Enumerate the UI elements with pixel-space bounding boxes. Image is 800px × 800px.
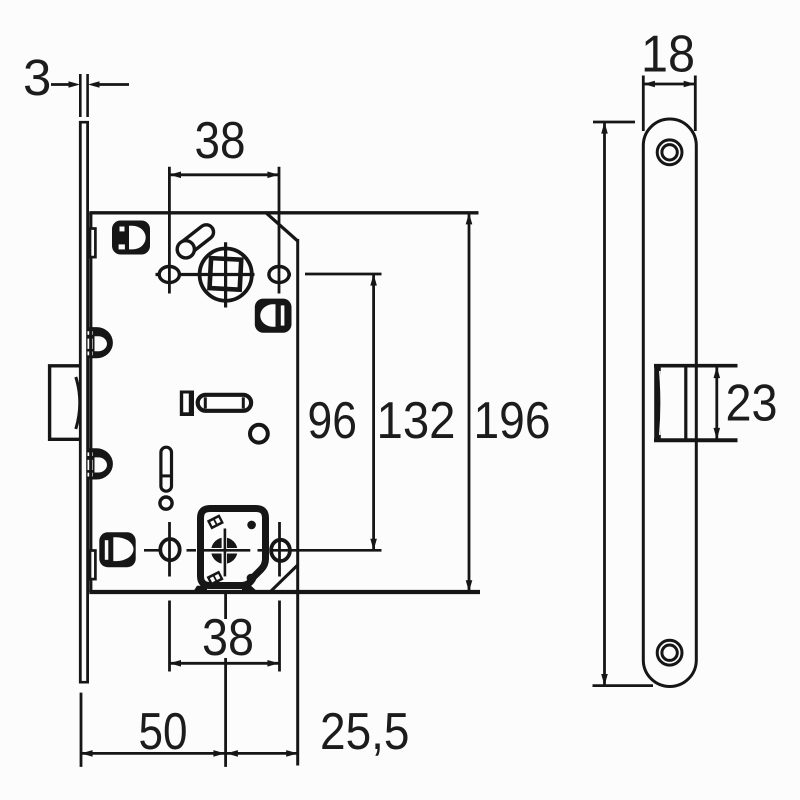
svg-text:50: 50 — [139, 703, 188, 761]
teardrop slot — [161, 447, 172, 491]
magnet case feet — [193, 586, 207, 592]
follower circle — [200, 249, 252, 301]
extension line 38 top left through hole — [168, 167, 171, 294]
upper mounting hook on faceplate — [88, 327, 113, 358]
svg-text:3: 3 — [23, 49, 51, 106]
svg-text:23: 23 — [726, 375, 778, 433]
top screw hole front — [657, 140, 682, 165]
small circle below slot — [250, 425, 268, 443]
extension line bottom-right hole — [278, 522, 281, 672]
hub screw — [211, 537, 238, 564]
lock case left edge — [89, 213, 92, 592]
faceplate extension line bottom — [80, 693, 83, 767]
lock case bottom-right chamfer — [271, 565, 299, 592]
svg-text:132: 132 — [377, 392, 456, 450]
upper-right screw hole — [269, 267, 289, 283]
dimension 25,5 — [226, 750, 299, 757]
extension line 38 top right through hole — [278, 167, 281, 294]
upper-left screw hole — [159, 267, 179, 283]
extension line bottom-left hole — [168, 522, 171, 672]
svg-text:38: 38 — [202, 609, 254, 667]
lock case top-right chamfer — [266, 213, 298, 241]
dimension 23 — [714, 366, 721, 441]
dimension 196 — [593, 122, 654, 686]
dimension 18 — [643, 76, 695, 132]
lower centerline dashes — [144, 549, 382, 552]
faceplate front view outline — [643, 119, 696, 687]
follower centerline vertical — [224, 242, 227, 307]
small dot lower-right — [247, 574, 256, 583]
dimension 38 top — [169, 172, 279, 179]
svg-text:25,5: 25,5 — [320, 703, 410, 761]
slanted guide slot — [178, 222, 217, 257]
lock case right edge with extension line — [296, 239, 299, 766]
dimension 132 — [466, 213, 473, 592]
D-tab top-left — [112, 221, 150, 255]
latch bolt (side view) — [50, 366, 80, 440]
lock case bottom edge with extension line — [89, 590, 480, 594]
dimension 96 — [305, 274, 382, 550]
hub centerline vertical — [224, 529, 227, 577]
bottom screw hole front — [657, 640, 682, 665]
small dot upper-right — [247, 521, 256, 530]
latch bevel arc (side view) — [76, 377, 80, 429]
lock case top edge with extension line — [89, 211, 478, 214]
adjuster rectangle — [180, 391, 194, 417]
slanted mark lower-left — [207, 571, 224, 586]
case notch lower — [90, 551, 95, 580]
svg-text:196: 196 — [474, 392, 551, 450]
slanted mark upper-left — [207, 514, 224, 529]
latch front view — [654, 366, 738, 441]
D-tab lower-left — [99, 532, 135, 567]
D-tab right — [255, 299, 292, 333]
guide slot end circle — [177, 241, 194, 258]
svg-text:96: 96 — [308, 392, 357, 450]
svg-text:38: 38 — [195, 112, 246, 170]
dimension 3 leader lines and arrows — [51, 74, 129, 117]
lower-right screw hole — [271, 540, 290, 561]
case notch upper — [90, 229, 95, 258]
dimension 50 — [81, 750, 226, 757]
magnet case (keyhole plate) — [201, 509, 266, 586]
dimension 38 bottom — [169, 660, 279, 667]
centerline horizontal upper — [156, 273, 255, 276]
spindle extension line bottom — [224, 594, 227, 767]
follower square spindle hole — [210, 258, 242, 290]
svg-text:18: 18 — [641, 26, 695, 84]
small circle below teardrop — [160, 497, 172, 509]
lower-left screw hole — [160, 539, 179, 560]
faceplate edge (side view) — [79, 121, 89, 684]
capsule slot — [198, 395, 251, 411]
lower mounting hook on faceplate — [88, 448, 113, 479]
